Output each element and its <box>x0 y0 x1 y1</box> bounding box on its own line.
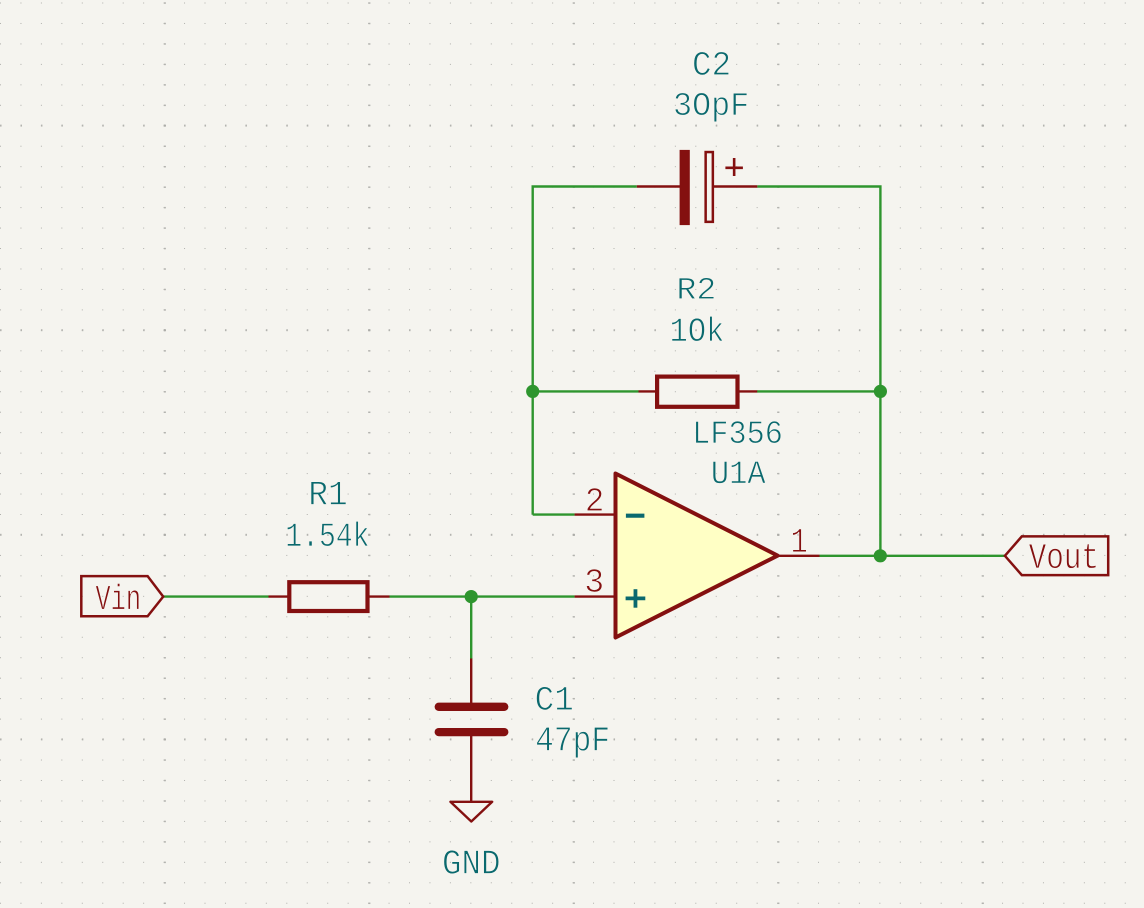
resistor R1 value label <box>287 521 368 546</box>
capacitor C2 plus sign <box>725 158 743 176</box>
op-amp part number label LF356 <box>696 421 781 443</box>
op-amp output pin 1 lead <box>778 555 820 557</box>
op-amp non-inverting input plus sign <box>626 589 646 608</box>
op-amp reference label U1A <box>713 461 766 483</box>
resistor R2 value label <box>672 316 723 341</box>
wire Vin to R1 <box>163 595 268 597</box>
op-amp pin 2 lead <box>575 513 616 515</box>
op-amp pin 1 number <box>793 529 807 552</box>
wire R1 to op-amp pin 3 <box>390 595 575 597</box>
wire to op-amp pin 2 <box>533 513 575 515</box>
ground GND label <box>444 850 499 874</box>
capacitor C1 reference label <box>536 687 572 711</box>
ground symbol <box>450 802 492 822</box>
wire C2 to right vertical <box>757 187 880 556</box>
capacitor C1 value label <box>537 727 608 758</box>
wire node to C1 <box>470 597 472 659</box>
resistor R2 <box>639 377 758 407</box>
op-amp pin 3 number <box>586 569 602 592</box>
capacitor C1 <box>439 659 505 802</box>
capacitor C2 value label <box>675 93 747 122</box>
global label Vout text <box>1029 544 1096 569</box>
capacitor C2 reference label <box>694 52 729 75</box>
wire R2 left <box>533 390 639 392</box>
global label Vin <box>81 576 163 616</box>
junction node output <box>874 549 887 562</box>
op-amp U1A <box>616 474 778 638</box>
op-amp pin 3 lead <box>575 595 616 597</box>
junction node R2 left <box>526 385 539 398</box>
op-amp inverting input minus sign <box>626 514 645 518</box>
global label Vin text <box>96 583 139 609</box>
resistor R1 <box>269 582 390 611</box>
resistor R2 reference label <box>679 278 714 299</box>
capacitor C2 (polarized) <box>637 150 758 225</box>
wire feedback left vertical <box>533 187 637 515</box>
wire R2 right <box>757 390 880 392</box>
resistor R1 reference label <box>311 481 346 504</box>
global label Vout <box>1005 536 1108 575</box>
junction node R1/C1 <box>465 590 478 603</box>
wire output to Vout <box>820 555 1005 557</box>
op-amp pin 2 number <box>587 488 602 511</box>
junction node R2 right <box>874 385 887 398</box>
